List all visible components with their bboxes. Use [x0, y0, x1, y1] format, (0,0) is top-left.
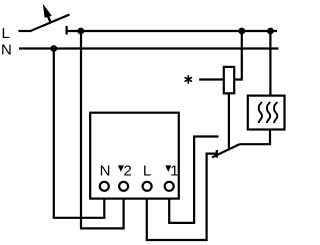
wire heater top to L line [269, 31, 271, 96]
wire terminal 1 to relay upper contact [169, 137, 218, 223]
terminal circle N [100, 182, 109, 191]
terminal circle L [143, 182, 152, 191]
thermostat unit box [90, 113, 179, 199]
wire L line to terminal 2 [81, 31, 124, 228]
relay contact lever [212, 144, 240, 157]
terminal label 2 arrow [118, 165, 124, 172]
heater element wave 1 [259, 102, 262, 123]
mains switch S actuation arrow [43, 4, 52, 18]
junction dot on N line at x54 [50, 45, 57, 52]
heater element wave 2 [267, 102, 270, 123]
wire L line [67, 30, 277, 32]
wire N line to terminal N [54, 49, 105, 218]
svg-text:L: L [2, 25, 10, 42]
heater load box [248, 96, 285, 130]
terminal circle 2 [119, 182, 128, 191]
svg-text:N: N [100, 162, 111, 179]
junction dot on L line at x81 [77, 28, 84, 35]
mains switch S fixed contact tick [65, 26, 67, 35]
asterisk note [185, 76, 191, 83]
mains switch S lever [31, 15, 70, 32]
svg-text:L: L [143, 162, 151, 179]
wire relay pivot to heater bottom [240, 130, 271, 145]
wire asterisk to resistor left side [199, 78, 224, 80]
wire terminal L to relay contact [147, 154, 217, 240]
wire resistor bottom to relay lever [228, 93, 230, 148]
wire L line to resistor right side [234, 31, 242, 80]
junction dot on L line at x270 [267, 28, 274, 35]
svg-text:1: 1 [170, 162, 178, 179]
resistor R (accelerator) [224, 67, 234, 93]
relay fixed contact tick [216, 150, 218, 158]
wire L line left stub [18, 30, 31, 32]
junction dot on L line at x242 [238, 28, 245, 35]
terminal circle 1 [165, 182, 174, 191]
svg-text:N: N [1, 42, 12, 59]
wire N line [19, 47, 279, 49]
heater element wave 3 [274, 102, 277, 123]
terminal label 1 arrow [165, 165, 171, 172]
svg-text:2: 2 [124, 162, 132, 179]
